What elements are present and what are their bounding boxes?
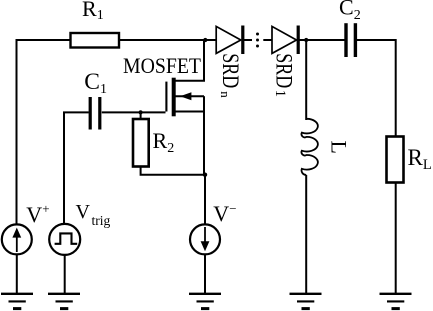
source Vtrig (pulse source circle) — [49, 224, 80, 255]
resistor RL — [387, 137, 404, 183]
wire diode SRD1 to node B — [299, 39, 345, 41]
wire C2 to right rail — [357, 39, 396, 41]
source vertical down — [203, 96, 205, 175]
ground (RL) — [380, 294, 412, 309]
drain lead — [175, 40, 205, 81]
ground (V+) — [1, 294, 33, 309]
wire R1 to node A — [119, 39, 216, 41]
wire top horizontal left segment to R1 — [16, 39, 72, 41]
node B junction dot (diode cathode / L / C2) — [304, 38, 308, 42]
capacitor C1 — [90, 97, 100, 130]
svg-text:1: 1 — [272, 90, 288, 97]
ground (Vtrig) — [48, 294, 80, 309]
ground (V-) — [189, 294, 221, 309]
wire inductor to ground — [305, 175, 307, 294]
wire V+ to ground — [16, 254, 18, 294]
wire RL to ground — [395, 183, 397, 294]
series continuation dots (ellipsis) — [256, 33, 259, 48]
wire R2 bottom to source node — [141, 167, 205, 175]
capacitor C2 — [346, 23, 355, 57]
wire gate to C1 — [102, 111, 166, 113]
node R2 top junction dot — [139, 110, 143, 114]
wire right rail down to RL — [395, 39, 397, 137]
ground (L) — [290, 294, 322, 309]
resistor R1 — [71, 33, 120, 48]
source V+ (current source circle, up arrow) — [2, 224, 32, 254]
wire node B down to inductor L — [305, 40, 307, 120]
wire V- to ground — [204, 254, 206, 294]
transistor Q1 MOSFET symbol — [166, 40, 204, 175]
resistor R2 — [133, 119, 149, 167]
channel bar — [172, 78, 176, 117]
source lead with arrow — [175, 95, 205, 97]
wire dots to diode SRD1 — [263, 39, 272, 41]
wire R2 top lead — [140, 112, 142, 119]
gate bar — [165, 82, 167, 112]
svg-text:L: L — [327, 141, 352, 154]
bulk lead — [175, 111, 205, 113]
wire node C to V- — [204, 175, 206, 224]
wire Vtrig to ground — [64, 255, 66, 294]
svg-text:SRD: SRD — [271, 53, 297, 88]
svg-text:MOSFET: MOSFET — [123, 53, 202, 78]
diode SRDn — [216, 26, 252, 55]
node A junction dot (drain / diode anode) — [203, 38, 207, 42]
node C junction dot (source / R2 / V-) — [203, 173, 207, 177]
source V- (current source circle, down arrow) — [190, 224, 220, 254]
wire left rail vertical from top wire to V+ — [16, 40, 18, 224]
svg-text:n: n — [218, 91, 233, 98]
diode SRD1 — [272, 26, 298, 55]
svg-text:SRD: SRD — [217, 53, 243, 88]
inductor L — [302, 119, 318, 175]
wire C1 left to Vtrig — [64, 112, 89, 224]
